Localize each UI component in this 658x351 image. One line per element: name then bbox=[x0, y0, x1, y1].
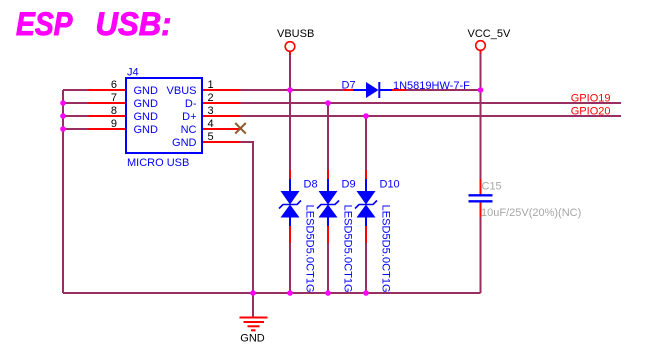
wire D7 cathode to VCC_5V bbox=[406, 89, 481, 91]
svg-text:D9: D9 bbox=[342, 179, 356, 191]
svg-text:4: 4 bbox=[208, 118, 214, 130]
junction (63,116) bbox=[60, 113, 66, 119]
svg-text:ESP: ESP bbox=[16, 6, 73, 42]
pin 7 stub bbox=[89, 102, 127, 104]
junction (290,293) bbox=[287, 290, 293, 296]
wire net GPIO19 row bbox=[241, 102, 622, 104]
wire ground bus bbox=[63, 292, 481, 294]
svg-text:GND: GND bbox=[134, 124, 159, 136]
wire D10 bottom bbox=[365, 243, 367, 293]
connector J4 body bbox=[126, 78, 202, 153]
junction (328,293) bbox=[325, 290, 331, 296]
pin 4 stub bbox=[202, 128, 241, 130]
wire pin7 row bbox=[63, 102, 89, 104]
svg-text:1: 1 bbox=[208, 79, 214, 91]
wire pin9 row bbox=[63, 128, 89, 130]
wire VBUSB vertical bbox=[289, 54, 291, 90]
svg-text:GND: GND bbox=[134, 111, 159, 123]
svg-text:5: 5 bbox=[208, 131, 214, 143]
svg-text:1N5819HW-7-F: 1N5819HW-7-F bbox=[393, 80, 470, 92]
svg-text:D+: D+ bbox=[182, 111, 196, 123]
pin 1 stub bbox=[202, 89, 241, 91]
wire net GPIO20 row bbox=[241, 115, 622, 117]
wire D9 top bbox=[327, 103, 329, 170]
svg-text:10uF/25V(20%)(NC): 10uF/25V(20%)(NC) bbox=[481, 207, 581, 219]
svg-text:3: 3 bbox=[208, 105, 214, 117]
svg-text:GPIO19: GPIO19 bbox=[571, 93, 611, 105]
pin 2 stub bbox=[202, 102, 241, 104]
TVS diode D9 bbox=[317, 170, 339, 243]
ground symbol bbox=[240, 293, 268, 330]
wire D9 bottom bbox=[327, 243, 329, 293]
svg-text:9: 9 bbox=[111, 118, 117, 130]
svg-text:GND: GND bbox=[134, 85, 159, 97]
svg-text:VCC_5V: VCC_5V bbox=[468, 28, 511, 40]
svg-text:C15: C15 bbox=[482, 181, 502, 193]
wire pin6 row bbox=[63, 89, 89, 91]
junction (290,90) bbox=[287, 87, 293, 93]
wire D10 top bbox=[365, 116, 367, 170]
svg-text:6: 6 bbox=[111, 79, 117, 91]
wire pin8 row bbox=[63, 115, 89, 117]
svg-text:GND: GND bbox=[134, 98, 159, 110]
svg-text:GPIO20: GPIO20 bbox=[571, 106, 611, 118]
svg-text:GND: GND bbox=[240, 333, 265, 345]
capacitor C15 bbox=[469, 179, 493, 217]
power port VCC_5V bbox=[468, 28, 511, 53]
title ESP USB: bbox=[16, 6, 172, 42]
svg-text:NC: NC bbox=[181, 124, 197, 136]
wire pin5 to ground bus bbox=[241, 142, 254, 293]
svg-text:D8: D8 bbox=[304, 179, 318, 191]
svg-text:LESD5D5.0CT1G: LESD5D5.0CT1G bbox=[380, 205, 392, 293]
junction (253,293) bbox=[250, 290, 256, 296]
svg-text:GND: GND bbox=[172, 137, 197, 149]
svg-text:J4: J4 bbox=[127, 67, 139, 79]
wire GND left vertical bbox=[62, 90, 64, 293]
pin 6 stub bbox=[89, 89, 127, 91]
junction (480.5,90) bbox=[478, 87, 484, 93]
wire net VBUS row bbox=[241, 89, 345, 91]
svg-text:MICRO USB: MICRO USB bbox=[127, 157, 189, 169]
svg-text:D7: D7 bbox=[342, 80, 356, 92]
svg-text:VBUS: VBUS bbox=[167, 85, 197, 97]
no-connect X on pin 4 bbox=[235, 123, 246, 134]
svg-text:D10: D10 bbox=[380, 179, 400, 191]
junction (328,103) bbox=[325, 100, 331, 106]
junction (63,103) bbox=[60, 100, 66, 106]
svg-text:7: 7 bbox=[111, 92, 117, 104]
TVS diode D8 bbox=[279, 170, 301, 243]
pin 9 stub bbox=[89, 128, 127, 130]
wire VCC_5V vertical below C15 bbox=[480, 217, 482, 293]
power port VBUSB bbox=[277, 28, 314, 54]
wire VCC_5V vertical top bbox=[480, 54, 482, 180]
junction (63,129) bbox=[60, 126, 66, 132]
svg-text:USB:: USB: bbox=[96, 6, 172, 42]
pin 3 stub bbox=[202, 115, 241, 117]
svg-text:LESD5D5.0CT1G: LESD5D5.0CT1G bbox=[304, 205, 316, 293]
svg-text:LESD5D5.0CT1G: LESD5D5.0CT1G bbox=[342, 205, 354, 293]
svg-text:8: 8 bbox=[111, 105, 117, 117]
svg-text:D-: D- bbox=[185, 98, 197, 110]
pin 5 stub bbox=[202, 141, 241, 143]
junction (366,293) bbox=[363, 290, 369, 296]
wire D8 top bbox=[289, 90, 291, 170]
junction (366,116) bbox=[363, 113, 369, 119]
wire D8 bottom bbox=[289, 243, 291, 293]
TVS diode D10 bbox=[355, 170, 377, 243]
svg-text:2: 2 bbox=[208, 92, 214, 104]
pin 8 stub bbox=[89, 115, 127, 117]
diode D7 bbox=[344, 82, 406, 98]
svg-text:VBUSB: VBUSB bbox=[277, 28, 314, 40]
